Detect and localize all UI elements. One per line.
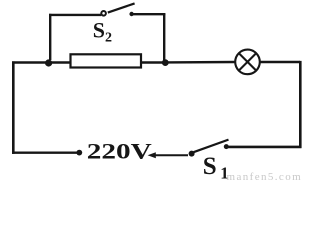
junction dot B [162,59,169,66]
branch vertical left [49,14,51,60]
svg-text:S1: S1 [203,153,229,182]
wire junction A to resistor [49,61,70,63]
wire main top-left horizontal [12,61,49,64]
arrow line toward 220V [151,154,188,156]
switch S2 contact dot [129,12,133,16]
branch top wire left of S2 [49,14,101,16]
svg-text:220V: 220V [87,139,152,164]
switch S1 pivot dot [189,151,195,157]
junction dot A [45,59,52,66]
wire resistor to junction B [142,61,166,63]
wire lamp to top-right corner [260,61,300,63]
switch S2 pivot ring [101,11,106,16]
svg-text:S2: S2 [93,17,112,45]
switch S2 lever [108,3,135,12]
branch top wire right of S2 [131,13,166,15]
svg-text:manfen5.com: manfen5.com [227,171,303,182]
wire bottom right [225,146,302,149]
wire junction B to lamp [165,61,235,64]
lamp L1 [235,50,260,75]
wire bottom left [12,151,78,153]
wire right vertical [299,61,302,148]
resistor R1 [71,54,142,67]
switch S1 right contact dot [224,144,229,149]
terminal dot left of 220V [76,150,82,156]
wire left vertical [12,61,15,153]
branch vertical right [163,14,165,60]
switch S1 lever [194,140,229,153]
arrowhead pointing left at 220V [148,152,156,158]
